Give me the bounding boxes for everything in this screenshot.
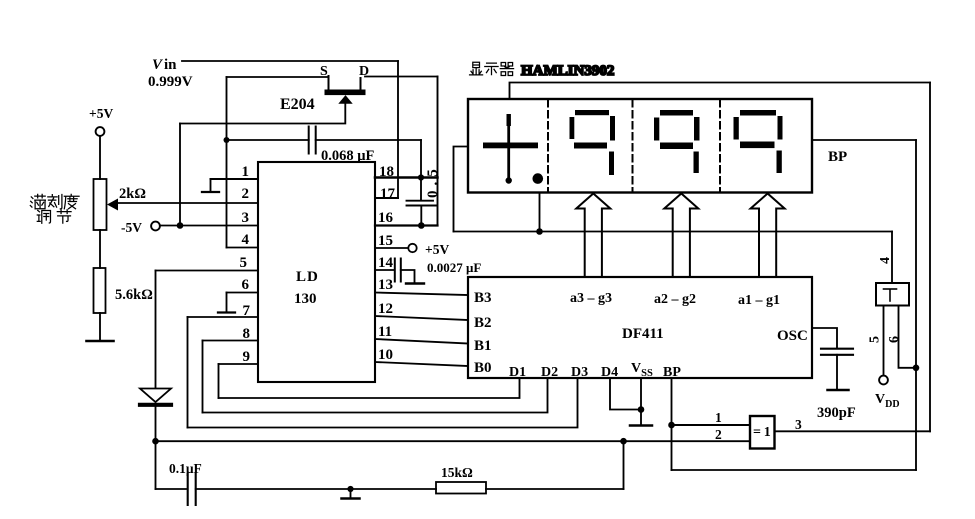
wire pin6 to BP net bbox=[899, 306, 917, 368]
display separator dashed 3 bbox=[719, 100, 721, 192]
wire 15k to riser bbox=[486, 488, 624, 490]
transistor Q1 E204 bbox=[280, 64, 369, 113]
wire C1 right to pin18 bbox=[420, 140, 422, 200]
arrow digit2 drive bbox=[576, 194, 610, 278]
svg-text:13: 13 bbox=[378, 277, 393, 293]
svg-text:14: 14 bbox=[378, 255, 394, 271]
wire pin13 to B3 bbox=[375, 293, 468, 296]
pin 16 wire bbox=[375, 224, 438, 226]
svg-text:6: 6 bbox=[242, 277, 250, 293]
terminal VDD bbox=[879, 376, 888, 385]
display separator dashed 2 bbox=[632, 100, 634, 192]
component T-box pin4/5/6 bbox=[876, 283, 909, 306]
svg-text:B1: B1 bbox=[474, 338, 492, 354]
svg-text:0.1μF: 0.1μF bbox=[169, 461, 202, 476]
capacitor C5 390pF on OSC bbox=[812, 328, 853, 390]
junction dot 15k riser bbox=[620, 438, 627, 445]
junction dot pin6 BP bbox=[913, 365, 920, 372]
junction dot BP gate input bbox=[668, 422, 675, 429]
svg-text:BP: BP bbox=[828, 149, 847, 165]
wire common net down to pin4 box bbox=[891, 232, 893, 284]
pin 6 wire and ground bbox=[218, 293, 258, 313]
wire pin11 to B1 bbox=[375, 339, 468, 344]
digit 4 nine bbox=[734, 110, 783, 173]
diode D1 bbox=[140, 389, 171, 405]
svg-text:D1: D1 bbox=[509, 365, 526, 380]
label full-scale adjust (Chinese) bbox=[30, 194, 79, 223]
wire pin5 to VDD terminal bbox=[883, 306, 885, 376]
svg-text:a3 – g3: a3 – g3 bbox=[570, 291, 612, 306]
potentiometer R1 2k body bbox=[94, 179, 107, 230]
svg-text:B0: B0 bbox=[474, 360, 492, 376]
wire common net horizontal bbox=[454, 231, 893, 233]
IC U1 LD130 box bbox=[258, 162, 375, 382]
pin 9 wire bbox=[219, 363, 259, 365]
pin numbers left bbox=[240, 164, 251, 365]
junction dot bottom ground bbox=[347, 486, 353, 492]
pin 7 wire bbox=[188, 316, 259, 318]
wire drain vertical down to pin16 bbox=[437, 77, 439, 226]
resistor R2 5.6k body bbox=[94, 268, 106, 313]
svg-text:12: 12 bbox=[378, 301, 393, 317]
junction dot bottom-left bbox=[152, 438, 159, 445]
wire long bottom net to gate input 2 bbox=[156, 440, 751, 442]
digit 3 nine bbox=[654, 110, 700, 173]
capacitor C3 0.0027uF on pin 14 bbox=[375, 259, 424, 284]
pin 8 wire bbox=[203, 340, 259, 342]
junction dot Vss D4 bbox=[638, 406, 645, 413]
ground bottom center bbox=[342, 489, 360, 499]
svg-text:in: in bbox=[164, 57, 177, 73]
pin 2 wire to potentiometer wiper bbox=[115, 202, 258, 204]
svg-text:4: 4 bbox=[878, 257, 893, 264]
ground Vss bbox=[630, 424, 652, 427]
wire BP pin down bbox=[671, 378, 673, 470]
wire pin10 to B0 bbox=[375, 362, 468, 366]
resistor R3 15k body bbox=[436, 482, 486, 494]
digit 2 nine bbox=[570, 110, 616, 175]
wire gate input 1 bbox=[672, 424, 751, 426]
potentiometer wiper arrow bbox=[107, 199, 118, 211]
terminal +5V pin15 bbox=[408, 244, 416, 252]
svg-text:0.999V: 0.999V bbox=[148, 74, 193, 90]
svg-text:1: 1 bbox=[715, 410, 722, 425]
terminal +5V top-left bbox=[89, 106, 113, 179]
svg-text:a2 – g2: a2 – g2 bbox=[654, 292, 696, 307]
display U3 HAMLIN3902 box bbox=[468, 99, 812, 193]
wire BP net vertical bbox=[915, 140, 917, 470]
pin 7 vertical drop bbox=[187, 317, 189, 428]
svg-text:3: 3 bbox=[795, 417, 802, 432]
arrow digit3 drive bbox=[664, 194, 698, 278]
svg-text:E204: E204 bbox=[280, 96, 315, 113]
pin 4 wire bbox=[227, 247, 259, 249]
pin 9 vertical drop bbox=[218, 364, 220, 398]
wire gate output 3 bbox=[775, 430, 931, 432]
svg-text:B3: B3 bbox=[474, 290, 492, 306]
wire Vin vertical to pin17 bbox=[397, 61, 399, 198]
terminal -5V bbox=[121, 220, 160, 235]
wire bottom rail bbox=[196, 488, 436, 490]
wire riser up to bottom net bbox=[623, 441, 625, 489]
wire display right BP pin bbox=[812, 139, 916, 141]
junction dot -5V gate net bbox=[177, 222, 184, 229]
pin 18 wire bbox=[375, 176, 438, 179]
wire display left pin bbox=[454, 147, 469, 232]
svg-text:15: 15 bbox=[378, 233, 393, 249]
svg-text:D3: D3 bbox=[571, 365, 588, 380]
wire pin5 vertical down to diode bbox=[155, 271, 157, 389]
wire source to left vertical bbox=[227, 76, 329, 78]
pin 5 wire bbox=[156, 270, 259, 272]
junction source net dot bbox=[224, 137, 230, 143]
svg-text:+5V: +5V bbox=[425, 242, 449, 257]
svg-text:130: 130 bbox=[294, 291, 317, 307]
svg-text:390pF: 390pF bbox=[817, 405, 856, 421]
node Vin label bbox=[148, 57, 193, 90]
svg-text:0.0027 μF: 0.0027 μF bbox=[427, 260, 481, 275]
wire digit1 cathode bbox=[539, 193, 541, 232]
digit 1 polarity segment bbox=[483, 114, 543, 184]
svg-text:a1 – g1: a1 – g1 bbox=[738, 293, 780, 308]
svg-text:3: 3 bbox=[242, 210, 250, 226]
svg-text:6: 6 bbox=[887, 336, 902, 343]
svg-text:7: 7 bbox=[243, 303, 251, 319]
wire diode to bottom bbox=[155, 405, 157, 489]
wire pin12 to B2 bbox=[375, 316, 468, 320]
label LD 130 bbox=[294, 269, 319, 307]
wire display top BP pin bbox=[510, 83, 931, 100]
arrow digit4 drive bbox=[751, 194, 785, 278]
junction dot pin18 bbox=[418, 174, 424, 180]
wire gate net vertical to -5V rail bbox=[179, 124, 181, 226]
svg-text:15kΩ: 15kΩ bbox=[441, 465, 473, 480]
wire Vss to ground bbox=[640, 378, 642, 424]
capacitor C2 0.5 (pin18 to pin16) bbox=[407, 201, 438, 226]
wire R2 to ground bbox=[99, 313, 101, 340]
svg-text:HAMLIN3902: HAMLIN3902 bbox=[521, 63, 614, 79]
svg-text:5: 5 bbox=[868, 336, 883, 343]
svg-text:4: 4 bbox=[242, 232, 250, 248]
IC U2 DF411 box bbox=[468, 277, 812, 378]
gate U4 XOR =1 box bbox=[750, 416, 775, 449]
svg-text:D2: D2 bbox=[541, 365, 558, 380]
svg-text:1: 1 bbox=[242, 164, 250, 180]
pin 17 wire bbox=[375, 197, 398, 199]
svg-text:8: 8 bbox=[243, 326, 251, 342]
svg-text:5.6kΩ: 5.6kΩ bbox=[115, 287, 153, 303]
svg-text:16: 16 bbox=[378, 210, 394, 226]
pin 3 wire to -5V bbox=[161, 225, 258, 227]
svg-text:DF411: DF411 bbox=[622, 326, 664, 342]
junction dot pin16 bbox=[418, 222, 425, 229]
svg-text:2: 2 bbox=[715, 427, 722, 442]
ground under R2 bbox=[87, 340, 114, 343]
label display title bbox=[470, 62, 615, 79]
bus wire D3 net bbox=[188, 378, 578, 428]
svg-text:= 1: = 1 bbox=[753, 425, 771, 440]
wire drain to right vertical bbox=[365, 76, 438, 78]
display separator dashed 1 bbox=[547, 100, 549, 192]
pin 1 wire and ground bbox=[202, 179, 258, 192]
svg-text:2kΩ: 2kΩ bbox=[119, 186, 146, 202]
wire BP return bottom bbox=[672, 469, 917, 471]
svg-text:17: 17 bbox=[380, 186, 396, 202]
svg-text:11: 11 bbox=[378, 324, 392, 340]
svg-text:+5V: +5V bbox=[89, 106, 113, 121]
wire Vin top bbox=[182, 60, 398, 62]
svg-text:B2: B2 bbox=[474, 315, 492, 331]
wire source net vertical (S / C1 / pin4) bbox=[226, 77, 228, 248]
svg-text:10: 10 bbox=[378, 347, 393, 363]
wire BP right vertical bbox=[929, 83, 931, 432]
capacitor C1 0.068uF bbox=[227, 127, 422, 165]
svg-text:0.5: 0.5 bbox=[425, 164, 441, 198]
svg-text:9: 9 bbox=[243, 349, 251, 365]
svg-text:5: 5 bbox=[240, 255, 248, 271]
pin 8 vertical drop bbox=[202, 341, 204, 413]
wire gate down and left bbox=[180, 104, 345, 124]
wire pot to R2 bbox=[99, 230, 101, 268]
svg-text:-5V: -5V bbox=[121, 220, 142, 235]
pin 15 wire bbox=[375, 247, 408, 249]
svg-text:OSC: OSC bbox=[777, 328, 808, 344]
svg-text:LD: LD bbox=[296, 269, 319, 285]
wire D4 to Vss bbox=[610, 378, 641, 410]
junction dot common net bbox=[536, 228, 543, 235]
capacitor C4 0.1uF bbox=[156, 461, 202, 505]
svg-text:2: 2 bbox=[242, 186, 250, 202]
pin numbers right bbox=[378, 164, 396, 363]
bus wire D1 net bbox=[219, 378, 520, 398]
bus wire D2 net bbox=[203, 378, 548, 413]
